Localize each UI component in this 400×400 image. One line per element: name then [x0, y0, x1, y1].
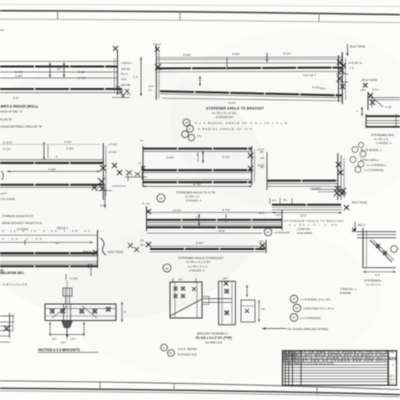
- beam C web thin line: [0, 261, 97, 263]
- beam P1 diagonal mark: [370, 95, 383, 107]
- svg-text:+1¾": +1¾": [60, 341, 67, 345]
- svg-text:3½: 3½: [57, 67, 62, 71]
- beam C bottom thin line: [0, 263, 97, 265]
- beam I mid vertical dim arrow: [198, 214, 200, 226]
- detail D bolt 3: [80, 309, 85, 314]
- svg-text:B MARK: B MARK: [340, 291, 351, 295]
- circles cluster T item 3: [290, 314, 298, 322]
- bracket L connecting lines to channel: [202, 298, 232, 300]
- svg-text:MAKE WITHOUT HOLES R 25: MAKE WITHOUT HOLES R 25: [2, 221, 42, 225]
- beam A right dense cluster extra: [121, 89, 129, 98]
- title block column line 4: [300, 351, 302, 386]
- svg-text:C 4x5: C 4x5: [70, 277, 78, 281]
- bracket R bottom horizontal: [363, 267, 396, 269]
- svg-text:B HOLES R-D: B HOLES R-D: [178, 353, 196, 357]
- beam A top flange dark line: [0, 65, 118, 67]
- beam F tick on top flange: [226, 58, 228, 70]
- bracket L notch: [202, 297, 209, 305]
- svg-text:+¼": +¼": [55, 241, 60, 245]
- column cluster bolt X marks: [336, 162, 343, 175]
- beam P2 right tick: [395, 114, 397, 128]
- svg-text:4 No ARMS: 4 No ARMS: [297, 231, 312, 235]
- bracket R dim line: [363, 271, 396, 273]
- svg-text:2½": 2½": [71, 337, 76, 341]
- svg-text:⅜+2: ⅜+2: [121, 77, 127, 81]
- svg-text:AS PER CLR: AS PER CLR: [205, 341, 222, 345]
- svg-text:2'-11": 2'-11": [78, 70, 85, 74]
- svg-text:BOLT ROW: BOLT ROW: [108, 250, 123, 254]
- svg-text:HOLES ENTIRELY DRILLED "B": HOLES ENTIRELY DRILLED "B": [0, 125, 42, 129]
- bracket R top horizontal lines: [357, 231, 396, 233]
- bottom border upper line: [0, 381, 400, 390]
- svg-text:STIFFENER ANGLE TO BRACKET: STIFFENER ANGLE TO BRACKET: [206, 107, 264, 111]
- svg-text:32: 32: [292, 316, 296, 320]
- svg-text:2 HOLES EA.: 2 HOLES EA.: [216, 115, 234, 119]
- top border main line: [0, 11, 400, 15]
- beam I left end vertical: [146, 206, 148, 231]
- bracket L plate outline: [170, 282, 202, 318]
- beam B right end bolt X 2: [98, 178, 105, 185]
- beam O bolt marks right: [335, 186, 345, 196]
- svg-text:2½": 2½": [52, 337, 57, 341]
- svg-text:4 RADIAL ANGLE 30'-0 ½: 4 RADIAL ANGLE 30'-0 ½: [198, 127, 253, 131]
- svg-text:7'-6⅜": 7'-6⅜": [48, 167, 56, 171]
- svg-text:[10'-0¼]: [10'-0¼]: [310, 187, 321, 191]
- svg-text:4½: 4½: [140, 239, 145, 243]
- beam J top thin line: [150, 245, 265, 247]
- circles cluster T item 2: [293, 304, 301, 312]
- bracket L right plate: [241, 300, 255, 322]
- beam I bottom dark line: [147, 226, 282, 228]
- svg-text:2 HOLES ⅞: 2 HOLES ⅞: [186, 199, 202, 203]
- svg-text:4'-1¾" 2'-0½: 4'-1¾" 2'-0½: [2, 237, 43, 241]
- beam H mid vertical dim arrow: [202, 151, 204, 163]
- beam P vertical dim arrow: [361, 107, 363, 116]
- svg-text:BOLT ROW: BOLT ROW: [350, 45, 365, 49]
- svg-text:OIL HOLES (DRILLED NOTES): OIL HOLES (DRILLED NOTES): [287, 327, 328, 331]
- svg-text:2'-6 +: 2'-6 +: [372, 88, 380, 92]
- beam C right brace: [100, 238, 106, 255]
- beam C right bolt X: [93, 250, 98, 255]
- beam C dim line: [0, 234, 97, 236]
- svg-text:1'-8: 1'-8: [133, 75, 138, 79]
- svg-text:PLA: PLA: [320, 87, 326, 91]
- title block outer box: [283, 351, 397, 386]
- svg-text:4 + xx: 4 + xx: [153, 42, 161, 46]
- beam O left end vertical: [266, 152, 268, 190]
- bracket L bolts: [174, 287, 197, 299]
- note U oil holes with arrow: [262, 328, 286, 330]
- title block column line 1: [284, 351, 286, 386]
- beam H overall dim line: [143, 185, 252, 187]
- title block dense texture wash: [283, 351, 388, 362]
- svg-text:2'-2⅛": 2'-2⅛": [166, 156, 174, 160]
- svg-text:+¼: +¼: [148, 88, 153, 92]
- beam H mid flange dark: [143, 169, 252, 171]
- svg-text:+3½: +3½: [360, 88, 366, 92]
- bracket R diagonal brace: [370, 240, 392, 262]
- beam F right end verticals: [338, 55, 340, 102]
- detail D bolt 2: [61, 309, 66, 314]
- beam P2 bottom dark line: [366, 126, 400, 128]
- beam B bottom flange dark: [0, 184, 103, 186]
- beam H top dark line: [143, 148, 252, 150]
- svg-text:2'-7⅛": 2'-7⅛": [78, 76, 86, 80]
- svg-text:PL ⅜: PL ⅜: [121, 72, 128, 76]
- bracket R diagonal bolts: [376, 244, 387, 255]
- beam I thin lines: [147, 222, 282, 224]
- svg-text:4'-0: 4'-0: [375, 273, 380, 277]
- beam F top flange dark: [157, 67, 342, 70]
- detail D bolt 5: [106, 307, 111, 312]
- beam H left end vertical: [142, 146, 144, 187]
- svg-text:4'-0½": 4'-0½": [312, 86, 320, 90]
- beam B vertical dim arrow: [43, 142, 45, 160]
- svg-text:4'-1½": 4'-1½": [222, 155, 230, 159]
- beam F left end vertical: [155, 44, 157, 100]
- svg-text:(THREAD HOLES R 27): (THREAD HOLES R 27): [2, 214, 33, 218]
- svg-text:2'-1⅛": 2'-1⅛": [3, 147, 11, 151]
- beam B bottom flange thin: [0, 186, 103, 188]
- detail D plate inner line 2: [45, 315, 116, 317]
- beam M dim line: [272, 212, 342, 214]
- svg-text:FT 2: FT 2: [389, 382, 395, 385]
- svg-text:4½: 4½: [283, 198, 288, 202]
- svg-text:4'-7½": 4'-7½": [222, 208, 230, 212]
- svg-text:+: +: [356, 109, 358, 113]
- svg-text:+2¼: +2¼: [275, 213, 281, 217]
- beam B right end bolt X 1: [100, 165, 106, 171]
- bottom circled item 1: [161, 344, 168, 351]
- svg-text:3'-0½": 3'-0½": [64, 140, 72, 144]
- scan tone wash 3: [60, 220, 380, 380]
- circles cluster Q: [352, 147, 358, 153]
- svg-text:PLAN "B": PLAN "B": [0, 118, 12, 122]
- caption N circled item: [264, 228, 272, 236]
- beam A right end bolt mark: [113, 46, 118, 51]
- svg-text:29: 29: [295, 306, 299, 310]
- svg-text:4+: 4+: [140, 139, 144, 143]
- bracket L inner verticals: [174, 282, 176, 318]
- beam F dim arrow mid: [266, 53, 268, 62]
- svg-text:4½": 4½": [178, 278, 183, 282]
- top margin faint line: [0, 4, 400, 6]
- beam C right lower marks: [88, 264, 92, 268]
- detail D section cut dark blob: [61, 320, 73, 328]
- beam B top flange gray band: [0, 160, 103, 163]
- beam A top thin line: [0, 60, 118, 62]
- svg-text:1 x B RADIAL 3'-0 x 3½: 1 x B RADIAL 3'-0 x 3½: [300, 298, 331, 302]
- beam I dim line: [146, 211, 283, 213]
- beam A bottom flange dark line: [0, 88, 122, 90]
- svg-text:1'-10: 1'-10: [385, 105, 392, 109]
- detail D center channel verticals: [63, 304, 65, 326]
- beam C bottom flange dark: [0, 265, 97, 267]
- svg-text:24: 24: [185, 121, 189, 125]
- note G circled item 2: [187, 125, 194, 132]
- scan tone wash 2: [170, 30, 400, 210]
- svg-text:3'-6⅛": 3'-6⅛": [183, 53, 191, 57]
- svg-text:4¼": 4¼": [0, 28, 5, 32]
- beam C dim sub text: [24, 240, 26, 245]
- svg-text:10'-0: 10'-0: [300, 214, 307, 218]
- detail D gusset diagonals: [52, 306, 97, 318]
- svg-text:+6'-0": +6'-0": [0, 192, 7, 196]
- beam F bottom flange dark: [160, 91, 342, 95]
- detail D bolt 1: [50, 309, 55, 314]
- beam H circled item: [157, 194, 165, 202]
- beam A right end cluster marks: [116, 86, 123, 94]
- detail D vertical centerline: [66, 280, 68, 340]
- beam B left curve mark: [1, 171, 3, 180]
- scan tone wash 1: [0, 60, 270, 320]
- beam J left bolt X: [146, 242, 151, 247]
- beam B top flange thin: [0, 159, 103, 161]
- beam M dim tick marks: [269, 198, 271, 204]
- svg-text:BOLT ROW: BOLT ROW: [362, 78, 377, 82]
- svg-text:R ⅜ PL ⅜: R ⅜ PL ⅜: [349, 61, 362, 65]
- beam P1 left end cluster: [368, 93, 375, 105]
- svg-text:4 + xx: 4 + xx: [142, 202, 150, 206]
- top-right circled pair above notes: [358, 142, 363, 147]
- title block row lines: [283, 353, 389, 355]
- svg-text:104.3A: 104.3A: [121, 67, 130, 71]
- beam I left end bolt X: [146, 209, 151, 214]
- beam B lower bolt marks: [92, 185, 105, 191]
- column base short lines: [312, 188, 345, 190]
- detail D dim line bottom: [50, 334, 84, 336]
- beam A web line 1: [0, 71, 118, 73]
- bolt row arrow mid-right lower: [354, 222, 356, 232]
- svg-text:6'-7½": 6'-7½": [193, 183, 201, 187]
- svg-text:9'-6¾": 9'-6¾": [196, 241, 204, 245]
- beam P2 thin lines: [366, 120, 400, 122]
- svg-text:2'-4½": 2'-4½": [66, 147, 74, 151]
- svg-text:+2: +2: [138, 161, 142, 165]
- detail D dim arrow right: [83, 322, 85, 336]
- svg-text:9'-1¾" 4'-1¾" 3'-2½" 2'-6⅛": 9'-1¾" 4'-1¾" 3'-2½" 2'-6⅛" 4½: [2, 229, 91, 233]
- beam O top dark line: [267, 180, 338, 182]
- beam B top flange dark: [0, 162, 103, 164]
- svg-text:4½+: 4½+: [259, 211, 265, 215]
- title block column line 3: [291, 351, 293, 386]
- beam B right end vertical: [102, 143, 104, 200]
- beam F top thin lines: [157, 58, 342, 60]
- circled pair above beam H: [182, 131, 189, 138]
- bracket L channel verticals: [218, 281, 220, 325]
- top border second line: [0, 19, 400, 23]
- detail D dim arrow left: [49, 322, 51, 336]
- beam A right end plate vertical: [117, 50, 119, 95]
- svg-text:4½: 4½: [140, 243, 145, 247]
- bracket L right side dims: [258, 300, 260, 322]
- beam F right end bolt cluster: [337, 60, 346, 89]
- beam I tick: [225, 214, 227, 222]
- svg-text:24: 24: [159, 196, 163, 200]
- beam B below centerline continues: [104, 188, 106, 208]
- svg-text:+2½: +2½: [258, 240, 264, 244]
- beam C top flange band dark: [0, 252, 97, 254]
- beam A bottom thin line: [0, 92, 122, 94]
- svg-text:0 REV PER ECN 1170 AND HOLE NO: 0 REV PER ECN 1170 AND HOLE NOTE: [286, 361, 334, 365]
- svg-text:24: 24: [292, 297, 296, 301]
- bracket L diagonal: [170, 299, 202, 316]
- detail D plate inner line 1: [45, 308, 116, 310]
- vertical dim between beams: [140, 57, 142, 96]
- detail D right side dim: [121, 302, 123, 322]
- svg-text:TRA: TRA: [390, 351, 395, 354]
- svg-text:2 x 2 ANGLE u: 2 x 2 ANGLE u: [367, 163, 387, 167]
- svg-text:+5'-8: +5'-8: [218, 229, 225, 233]
- svg-text:3½: 3½: [261, 307, 266, 311]
- svg-text:4'-1⅝": 4'-1⅝": [283, 52, 291, 56]
- svg-text:A: A: [163, 346, 165, 350]
- beam C top flange gray band: [0, 252, 97, 256]
- bracket R circle note: [391, 246, 398, 253]
- beam F mid vertical dim arrow: [199, 76, 201, 86]
- svg-text:+2'-0½": +2'-0½": [108, 143, 118, 147]
- svg-text:B: B: [170, 351, 172, 355]
- beam B faint upper dim line: [0, 143, 100, 145]
- svg-text:2 x 2 ANGLE(S): 2 x 2 ANGLE(S): [300, 316, 321, 320]
- detail D channel top piece: [63, 288, 72, 296]
- beam M thin lines: [272, 206, 342, 208]
- svg-text:‹ +¼ B 7⅞ x ½ x 2'-6": ‹ +¼ B 7⅞ x ½ x 2'-6": [0, 283, 28, 287]
- svg-text:+2'-0¼": +2'-0¼": [108, 150, 118, 154]
- detail D bolt 4: [93, 309, 98, 314]
- svg-text:+2¾": +2¾": [222, 277, 229, 281]
- svg-text:A POLYURA 3'-0 x 3½ u: A POLYURA 3'-0 x 3½ u: [303, 307, 334, 311]
- svg-text:Lan mar T: Lan mar T: [303, 73, 316, 77]
- beam M right end bolts: [344, 205, 349, 210]
- svg-text:BOLT: BOLT: [358, 223, 366, 227]
- svg-text:+104.3—: +104.3—: [121, 61, 133, 65]
- svg-text:BRACKET ASSEMBLY+: BRACKET ASSEMBLY+: [197, 332, 229, 336]
- beam A vertical dim arrow 1: [49, 63, 51, 78]
- bracket L right dim arrow: [246, 285, 248, 297]
- top border tick 2: [179, 11, 181, 20]
- note G circled item 1: [183, 119, 190, 126]
- bracket W right of beam B: [126, 170, 140, 176]
- top border tick 1: [57, 11, 59, 20]
- svg-text:4 x 3½ x ½: 4 x 3½ x ½: [366, 283, 381, 287]
- bottom border tick 3: [316, 388, 318, 396]
- svg-text:+3'-2½": +3'-2½": [172, 209, 182, 213]
- beam F bottom thin lines: [160, 94, 342, 98]
- svg-text:2'-4½": 2'-4½": [15, 74, 23, 78]
- bottom border tick 2: [173, 383, 175, 391]
- beam A web line 2: [0, 77, 118, 79]
- left edge detail E dark marks: [4, 326, 9, 331]
- bracket L channel caps: [219, 280, 236, 282]
- left edge detail E lines: [0, 315, 14, 317]
- detail D plate outline: [45, 304, 116, 321]
- beam H lower thin: [143, 179, 252, 181]
- beam M top dark line: [272, 204, 342, 206]
- svg-text:4'-6⅛": 4'-6⅛": [232, 52, 240, 56]
- bottom border lower line: [0, 391, 400, 397]
- svg-text:24: 24: [266, 230, 270, 234]
- circles cluster T item 1: [290, 295, 298, 303]
- beam H right bolt X marks: [248, 153, 253, 171]
- svg-text:MALAYSIA SEC.: MALAYSIA SEC.: [0, 271, 25, 275]
- beam J dark line: [150, 248, 265, 250]
- beam F left end bolt X: [155, 64, 161, 70]
- bracket R left vertical: [362, 228, 364, 268]
- svg-text:PL 8 E x 4 x 2'-0½ (TYP): PL 8 E x 4 x 2'-0½ (TYP): [196, 336, 232, 340]
- far right marks of beam C row: [128, 243, 139, 252]
- top border tick 3: [318, 13, 320, 22]
- beam I top dark line: [147, 219, 282, 221]
- beam H bottom dark: [143, 181, 252, 183]
- svg-text:CC: CC: [293, 357, 297, 360]
- svg-text:4'-0½": 4'-0½": [228, 101, 236, 105]
- svg-text:2 x 4 RADIAL ANGLE 30'-0 ¼ x 3: 2 x 4 RADIAL ANGLE 30'-0 ¼ x 3½ x 3 x ⅜: [195, 121, 288, 125]
- svg-text:2 x 2.5 RADIAL: 2 x 2.5 RADIAL: [364, 168, 384, 172]
- svg-text:BOLT ROW: BOLT ROW: [352, 201, 367, 205]
- beam H top thin line: [143, 150, 252, 152]
- beam F web thin line: [157, 71, 342, 73]
- svg-text:-BM'S & ANGLES (ROLL): -BM'S & ANGLES (ROLL): [0, 105, 38, 109]
- title block column line 2: [288, 351, 290, 386]
- svg-text:+ ⅜: + ⅜: [349, 66, 354, 70]
- beam A vertical dim arrow 2: [63, 63, 65, 78]
- svg-text:4 x 3½ x ½ x 2'-5½: 4 x 3½ x ½ x 2'-5½: [186, 260, 211, 264]
- svg-text:2 HOLES ⅞: 2 HOLES ⅞: [189, 269, 205, 273]
- svg-text:420: 420: [389, 356, 397, 361]
- note K circled item: [163, 264, 171, 272]
- beam C right end vertical: [97, 230, 99, 268]
- bottom border tick 1: [99, 382, 101, 390]
- bottom circled item 2: [168, 350, 175, 357]
- svg-text:FACE OF BM. "A": FACE OF BM. "A": [0, 110, 23, 114]
- beam H mid flange thin: [143, 172, 252, 174]
- svg-text:4½: 4½: [260, 165, 265, 169]
- svg-text:SECTION X-X A BRACKETS: SECTION X-X A BRACKETS: [38, 348, 80, 352]
- beam H right end vertical: [251, 146, 253, 185]
- beam P2 left end vertical: [365, 114, 367, 128]
- svg-text:+2 ANGLES: +2 ANGLES: [274, 231, 290, 235]
- svg-text:4½: 4½: [272, 199, 277, 203]
- beam I lower dim line: [147, 232, 262, 234]
- column cluster dense base: [334, 188, 346, 196]
- svg-text:1 PL 4 ANG.: 1 PL 4 ANG.: [0, 197, 16, 201]
- bracket L channel bolts: [225, 289, 230, 315]
- title block right divider: [387, 351, 389, 386]
- svg-text:A S.S. NOTES: A S.S. NOTES: [178, 347, 197, 351]
- svg-text:1½: 1½: [100, 204, 105, 208]
- left edge detail E verticals: [9, 313, 11, 338]
- svg-text:3'-6": 3'-6": [13, 96, 19, 100]
- svg-text:104.3B: 104.3B: [121, 83, 130, 87]
- beam P1 lines: [368, 97, 400, 99]
- svg-text:2 HOLES ⅞: 2 HOLES ⅞: [376, 141, 392, 145]
- svg-text:+½: +½: [260, 156, 265, 160]
- bottom border main line: [0, 388, 400, 394]
- svg-text:4½: 4½: [260, 150, 265, 154]
- beam F dim line: [157, 56, 342, 58]
- beam J bottom thin line: [150, 251, 265, 253]
- svg-text:1½: 1½: [197, 134, 202, 138]
- beam I right end vertical: [281, 210, 283, 230]
- svg-text:2'-11⅞": 2'-11⅞": [3, 141, 13, 145]
- column cluster verticals: [337, 153, 339, 200]
- beam O thin lines: [267, 183, 338, 185]
- beam P2 top dark line: [366, 115, 400, 117]
- svg-text:24: 24: [165, 266, 169, 270]
